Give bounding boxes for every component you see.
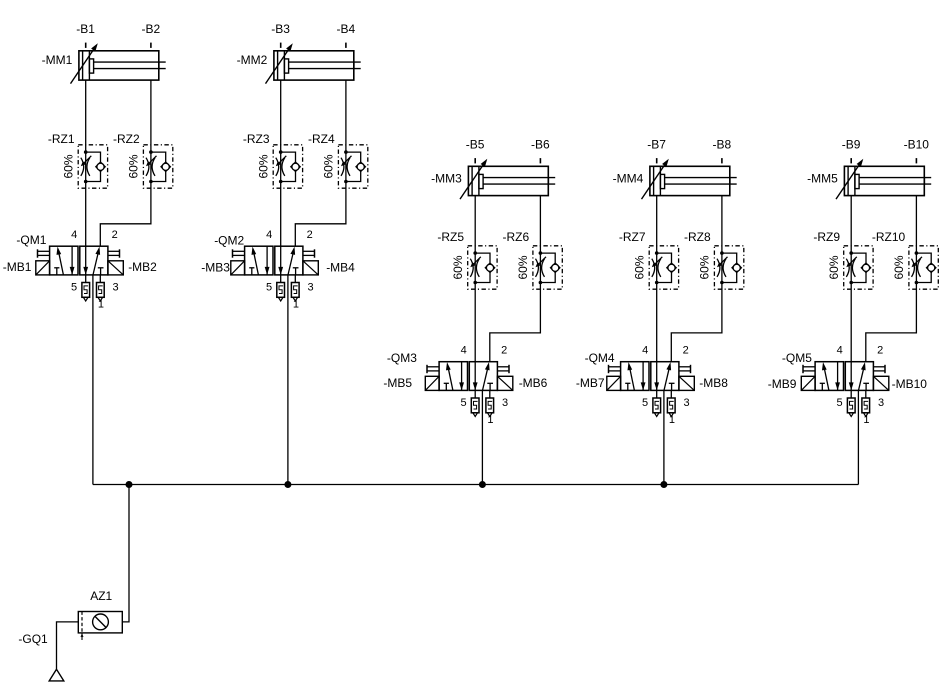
svg-text:-MB7: -MB7 xyxy=(576,376,605,390)
svg-text:60%: 60% xyxy=(451,255,465,279)
svg-text:-RZ2: -RZ2 xyxy=(113,132,140,146)
solenoid MB9 xyxy=(801,376,815,390)
svg-text:4: 4 xyxy=(71,229,77,241)
svg-text:60%: 60% xyxy=(256,154,270,178)
wire: valve QM5 port 1 to supply bus xyxy=(857,390,859,484)
flow control valve RZ5 xyxy=(468,246,497,289)
cylinder MM2 xyxy=(266,43,361,83)
svg-text:-RZ6: -RZ6 xyxy=(503,230,530,244)
wire: cylinder port B9 side to valve port 4 xyxy=(850,196,852,362)
service unit AZ1 xyxy=(78,612,122,641)
wire: cylinder port B8 side to valve port 2 xyxy=(671,196,722,362)
svg-text:-B4: -B4 xyxy=(336,22,355,36)
svg-text:4: 4 xyxy=(837,345,843,357)
svg-text:2: 2 xyxy=(112,229,118,241)
flow control valve RZ2 xyxy=(143,145,172,188)
wire: cylinder port B3 side to valve port 4 xyxy=(280,80,282,246)
svg-text:60%: 60% xyxy=(892,255,906,279)
svg-text:-MB10: -MB10 xyxy=(892,377,928,391)
svg-text:-MB5: -MB5 xyxy=(383,376,412,390)
sensor mark B10 xyxy=(915,158,917,163)
flow control valve RZ9 xyxy=(844,246,873,289)
svg-text:-MM5: -MM5 xyxy=(807,171,838,185)
svg-text:60%: 60% xyxy=(127,154,141,178)
wire: cylinder port B6 side to valve port 2 xyxy=(490,196,541,362)
svg-text:-RZ8: -RZ8 xyxy=(684,230,711,244)
svg-text:-RZ7: -RZ7 xyxy=(619,230,646,244)
svg-text:-QM2: -QM2 xyxy=(214,233,244,247)
svg-text:-RZ3: -RZ3 xyxy=(243,132,270,146)
wire: cylinder port B5 side to valve port 4 xyxy=(474,196,476,362)
flow control valve RZ1 xyxy=(78,145,107,188)
svg-text:-QM3: -QM3 xyxy=(387,351,417,365)
svg-text:-MB3: -MB3 xyxy=(201,261,230,275)
junction xyxy=(126,481,133,488)
flow control valve RZ6 xyxy=(533,246,562,289)
svg-text:-MM3: -MM3 xyxy=(431,171,462,185)
junction xyxy=(660,481,667,488)
muffler at port 3 xyxy=(862,390,870,416)
svg-text:4: 4 xyxy=(461,345,467,357)
svg-text:60%: 60% xyxy=(322,154,336,178)
svg-text:-MB2: -MB2 xyxy=(128,260,157,274)
solenoid MB5 xyxy=(425,376,439,390)
solenoid MB3 xyxy=(231,261,245,275)
muffler at port 3 xyxy=(486,390,494,416)
svg-text:-B5: -B5 xyxy=(466,138,485,152)
muffler at port 3 xyxy=(667,390,675,416)
svg-text:1: 1 xyxy=(98,298,104,310)
wire: bus to service unit AZ1 xyxy=(122,485,129,622)
svg-text:5: 5 xyxy=(836,397,842,409)
muffler at port 3 xyxy=(291,275,299,301)
svg-text:-RZ9: -RZ9 xyxy=(813,230,840,244)
svg-text:-GQ1: -GQ1 xyxy=(18,632,48,646)
svg-text:1: 1 xyxy=(487,414,493,426)
svg-text:60%: 60% xyxy=(827,255,841,279)
wire: valve QM4 port 1 to supply bus xyxy=(663,390,665,484)
svg-text:-MM2: -MM2 xyxy=(237,53,268,67)
svg-text:-RZ1: -RZ1 xyxy=(48,132,75,146)
svg-text:5: 5 xyxy=(71,281,77,293)
svg-text:-MB8: -MB8 xyxy=(699,376,728,390)
5/2-way valve QM5 xyxy=(803,362,885,391)
solenoid MB4 xyxy=(303,261,318,275)
svg-text:2: 2 xyxy=(501,345,507,357)
solenoid MB2 xyxy=(108,261,123,275)
svg-text:60%: 60% xyxy=(698,255,712,279)
5/2-way valve QM1 xyxy=(38,246,120,275)
svg-text:1: 1 xyxy=(669,414,675,426)
svg-text:1: 1 xyxy=(293,298,299,310)
cylinder MM3 xyxy=(460,159,555,199)
sensor mark B2 xyxy=(150,43,152,48)
svg-text:AZ1: AZ1 xyxy=(90,589,112,603)
sensor mark B3 xyxy=(280,43,282,48)
svg-text:-B3: -B3 xyxy=(271,22,290,36)
flow control valve RZ4 xyxy=(338,145,367,188)
sensor mark B7 xyxy=(656,158,658,163)
muffler at port 5 xyxy=(82,275,90,301)
svg-text:60%: 60% xyxy=(61,154,75,178)
svg-text:2: 2 xyxy=(307,229,313,241)
wire: cylinder port B4 side to valve port 2 xyxy=(295,80,346,246)
svg-text:-MB9: -MB9 xyxy=(768,377,797,391)
svg-text:5: 5 xyxy=(266,281,272,293)
svg-text:-B7: -B7 xyxy=(647,138,666,152)
solenoid MB8 xyxy=(679,376,694,390)
compressed air source GQ1 xyxy=(49,669,64,681)
wire: supply bus xyxy=(93,484,859,486)
5/2-way valve QM4 xyxy=(609,362,691,391)
wire: valve QM3 port 1 to supply bus xyxy=(481,390,483,484)
cylinder MM5 xyxy=(836,159,931,199)
svg-text:3: 3 xyxy=(307,281,313,293)
sensor mark B5 xyxy=(474,158,476,163)
flow control valve RZ10 xyxy=(909,246,938,289)
svg-text:-RZ4: -RZ4 xyxy=(308,132,335,146)
svg-text:-B10: -B10 xyxy=(904,138,930,152)
svg-text:-B2: -B2 xyxy=(141,22,160,36)
sensor mark B8 xyxy=(721,158,723,163)
svg-text:-MM1: -MM1 xyxy=(42,53,73,67)
svg-text:-MM4: -MM4 xyxy=(613,171,644,185)
wire: valve QM2 port 1 to supply bus xyxy=(287,275,289,485)
wire: cylinder port B10 side to valve port 2 xyxy=(866,196,917,362)
muffler at port 5 xyxy=(653,390,661,416)
solenoid MB7 xyxy=(607,376,621,390)
svg-text:60%: 60% xyxy=(516,255,530,279)
cylinder MM4 xyxy=(642,159,737,199)
sensor mark B1 xyxy=(85,43,87,48)
wire: cylinder port B2 side to valve port 2 xyxy=(100,80,151,246)
muffler at port 5 xyxy=(277,275,285,301)
svg-text:4: 4 xyxy=(642,345,648,357)
svg-text:-RZ10: -RZ10 xyxy=(872,230,906,244)
svg-text:2: 2 xyxy=(877,345,883,357)
5/2-way valve QM2 xyxy=(233,246,315,275)
flow control valve RZ7 xyxy=(649,246,678,289)
wire: cylinder port B7 side to valve port 4 xyxy=(656,196,658,362)
svg-text:5: 5 xyxy=(460,397,466,409)
wire: cylinder port B1 side to valve port 4 xyxy=(85,80,87,246)
svg-text:3: 3 xyxy=(878,397,884,409)
wire: AZ1 to air source GQ1 xyxy=(57,622,79,669)
solenoid MB1 xyxy=(36,261,50,275)
sensor mark B4 xyxy=(345,43,347,48)
solenoid MB10 xyxy=(873,376,888,390)
solenoid MB6 xyxy=(497,376,512,390)
svg-text:3: 3 xyxy=(502,397,508,409)
svg-text:-QM4: -QM4 xyxy=(585,351,615,365)
svg-text:-RZ5: -RZ5 xyxy=(437,230,464,244)
cylinder MM1 xyxy=(71,43,166,83)
junction xyxy=(284,481,291,488)
wire: valve QM1 port 1 to supply bus xyxy=(92,275,94,485)
svg-text:-MB6: -MB6 xyxy=(519,376,548,390)
sensor mark B6 xyxy=(539,158,541,163)
svg-text:1: 1 xyxy=(863,414,869,426)
svg-text:-B9: -B9 xyxy=(842,138,861,152)
svg-text:3: 3 xyxy=(112,281,118,293)
svg-text:-MB1: -MB1 xyxy=(3,260,32,274)
svg-text:-MB4: -MB4 xyxy=(326,261,355,275)
flow control valve RZ3 xyxy=(273,145,302,188)
5/2-way valve QM3 xyxy=(427,362,509,391)
svg-text:5: 5 xyxy=(642,397,648,409)
svg-text:-B8: -B8 xyxy=(712,138,731,152)
muffler at port 5 xyxy=(471,390,479,416)
svg-text:3: 3 xyxy=(683,397,689,409)
svg-text:-B6: -B6 xyxy=(531,138,550,152)
muffler at port 3 xyxy=(97,275,105,301)
svg-text:60%: 60% xyxy=(632,255,646,279)
sensor mark B9 xyxy=(850,158,852,163)
flow control valve RZ8 xyxy=(714,246,743,289)
svg-text:2: 2 xyxy=(683,345,689,357)
svg-text:4: 4 xyxy=(266,229,272,241)
junction xyxy=(479,481,486,488)
svg-text:-QM1: -QM1 xyxy=(16,233,46,247)
svg-text:-QM5: -QM5 xyxy=(782,351,812,365)
svg-text:-B1: -B1 xyxy=(76,22,95,36)
muffler at port 5 xyxy=(847,390,855,416)
